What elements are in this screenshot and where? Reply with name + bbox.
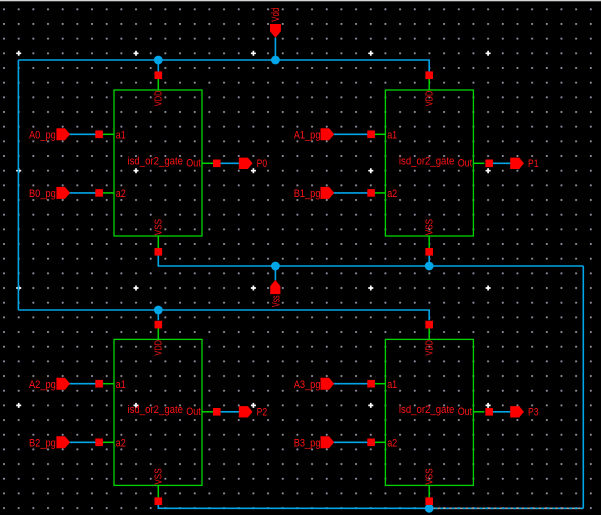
wire: Vdd top bus from left rail to gate2 VDD drop (18, 60, 429, 72)
wire: lower Vdd bus to gate4 VDD drop (18, 310, 429, 320)
or2 gate instance isd_or2_gate (bottom-right) (385, 339, 473, 485)
or2 gate instance isd_or2_gate (bottom-left) (114, 339, 202, 485)
wire: Vss symbol stem (274, 266, 276, 280)
pin a1 of bottom-right (374, 379, 397, 391)
junction square: net P0 at Out pin (213, 160, 221, 168)
input port A1_pg wire to pin a1 (332, 133, 371, 135)
wire: Vdd symbol stem (274, 38, 276, 61)
junction square: net A3_pg at gate pin (367, 380, 375, 388)
input port B0_pg wire to pin a2 (68, 192, 99, 194)
junction: Vdd bus / gate1 drop (154, 56, 163, 65)
pin Out of top-left (186, 158, 213, 170)
svg-text:P1: P1 (528, 158, 539, 170)
junction: Vdd bus / Vdd symbol (271, 56, 280, 65)
output wire from Out square to port P3 (489, 411, 512, 413)
svg-text:a1: a1 (116, 130, 126, 142)
wire: gate1 VSS to Vss mid bus, across to right rail (158, 255, 583, 266)
svg-text:B3_pg: B3_pg (294, 438, 321, 450)
svg-text:B2_pg: B2_pg (29, 438, 56, 450)
pin a1 of top-left (103, 130, 126, 142)
input port B1_pg wire to pin a2 (332, 192, 371, 194)
output wire from Out square to port P1 (489, 162, 512, 164)
svg-text:VSS: VSS (423, 468, 435, 484)
svg-text:B1_pg: B1_pg (294, 188, 321, 200)
pin a2 of bottom-left (103, 438, 126, 450)
svg-text:a1: a1 (116, 379, 126, 391)
pin VSS of top-right (423, 219, 435, 256)
input port B3_pg wire to pin a2 (332, 441, 371, 443)
pin VDD of bottom-right (423, 321, 435, 356)
input port terminal A0_pg (29, 128, 70, 141)
svg-text:A2_pg: A2_pg (29, 379, 56, 391)
wire: gate2 VSS stub to mid bus (428, 255, 430, 266)
pin a1 of bottom-left (103, 379, 126, 391)
input port terminal B3_pg (294, 436, 334, 449)
svg-text:A0_pg: A0_pg (29, 130, 56, 142)
output port terminal P3 (510, 406, 538, 418)
pin a2 of top-right (374, 188, 397, 200)
junction square: net B3_pg at gate pin (367, 439, 375, 447)
svg-text:P2: P2 (257, 406, 268, 418)
input port terminal B2_pg (29, 436, 70, 449)
svg-text:isd_or2_gate: isd_or2_gate (128, 404, 184, 416)
svg-text:Out: Out (186, 158, 201, 170)
junction square: net P3 at Out pin (485, 408, 493, 416)
input port terminal A2_pg (29, 378, 70, 391)
input port terminal A1_pg (294, 128, 334, 141)
junction: mid bus / gate2 VSS (425, 262, 434, 271)
wire: Vdd drop to gate3 VDD pin (157, 310, 159, 320)
wire: gate3 VSS down to bottom bus, right to junction (158, 505, 429, 509)
wire: right Vss rail down to bottom bus corner (582, 266, 584, 508)
junction square: net P2 at Out pin (213, 408, 221, 416)
wire: gate4 VSS stub to bottom bus (428, 505, 430, 509)
svg-text:Vss: Vss (271, 295, 283, 307)
svg-text:a2: a2 (387, 188, 397, 200)
pin VDD of top-right (423, 71, 435, 106)
ground symbol Vss (points up) (270, 280, 282, 307)
svg-text:P0: P0 (257, 158, 268, 170)
pin a2 of top-left (103, 188, 126, 200)
svg-text:VSS: VSS (153, 468, 165, 484)
input port terminal A3_pg (294, 378, 334, 391)
output port terminal P1 (510, 158, 538, 170)
output port terminal P0 (239, 158, 267, 170)
input port B2_pg wire to pin a2 (68, 441, 99, 443)
svg-text:a1: a1 (387, 379, 397, 391)
pin VDD of top-left (153, 71, 165, 106)
svg-text:a2: a2 (116, 188, 126, 200)
or2 gate instance isd_or2_gate (top-left) (114, 90, 202, 236)
svg-text:VSS: VSS (423, 219, 435, 235)
pin VSS of bottom-right (423, 468, 435, 505)
svg-text:B0_pg: B0_pg (29, 188, 56, 200)
svg-text:A1_pg: A1_pg (294, 130, 321, 142)
wire: bottom bus highlighted segment (dashed) to right rail (429, 507, 583, 509)
svg-text:a1: a1 (387, 130, 397, 142)
wire: left Vdd rail (17, 60, 19, 310)
input port A0_pg wire to pin a1 (68, 133, 99, 135)
svg-text:isd_or2_gate: isd_or2_gate (399, 155, 455, 167)
pin Out of top-right (458, 158, 485, 170)
input port A3_pg wire to pin a1 (332, 383, 371, 385)
pin VSS of bottom-left (153, 468, 165, 505)
svg-text:VSS: VSS (153, 219, 165, 235)
pin a2 of bottom-right (374, 438, 397, 450)
svg-text:P3: P3 (528, 406, 539, 418)
svg-text:Vdd: Vdd (270, 8, 282, 22)
svg-text:VDD: VDD (153, 340, 165, 356)
svg-text:A3_pg: A3_pg (294, 379, 321, 391)
svg-text:Out: Out (186, 406, 201, 418)
junction square: net B2_pg at gate pin (95, 439, 103, 447)
junction: mid bus / Vss symbol (271, 262, 280, 271)
input port terminal B1_pg (294, 187, 334, 200)
junction: lower Vdd bus / gate3 drop (154, 306, 163, 315)
wire: Vdd drop to gate1 VDD pin (157, 60, 159, 72)
input port A2_pg wire to pin a1 (68, 383, 99, 385)
pin VDD of bottom-left (153, 321, 165, 356)
pin VSS of top-left (153, 219, 165, 256)
junction square: net A2_pg at gate pin (95, 380, 103, 388)
output wire from Out square to port P2 (217, 411, 241, 413)
power symbol Vdd (supply pin, points down) (270, 8, 282, 38)
svg-text:Out: Out (458, 406, 473, 418)
or2 gate instance isd_or2_gate (top-right) (385, 90, 473, 236)
junction square: net B0_pg at gate pin (95, 189, 103, 197)
input port terminal B0_pg (29, 187, 70, 200)
pin Out of bottom-right (458, 406, 485, 418)
junction square: net A0_pg at gate pin (95, 131, 103, 139)
output wire from Out square to port P0 (217, 162, 241, 164)
junction square: net B1_pg at gate pin (367, 189, 375, 197)
svg-text:a2: a2 (387, 438, 397, 450)
pin Out of bottom-left (186, 406, 213, 418)
svg-text:isd_or2_gate: isd_or2_gate (128, 155, 184, 167)
junction square: net P1 at Out pin (485, 160, 493, 168)
output port terminal P2 (239, 406, 267, 418)
junction: bottom bus / gate4 VSS (425, 504, 434, 513)
svg-text:isd_or2_gate: isd_or2_gate (399, 404, 455, 416)
svg-text:VDD: VDD (153, 90, 165, 106)
svg-text:a2: a2 (116, 438, 126, 450)
svg-text:VDD: VDD (423, 90, 435, 106)
junction square: net A1_pg at gate pin (367, 131, 375, 139)
svg-text:VDD: VDD (423, 340, 435, 356)
svg-text:Out: Out (458, 158, 473, 170)
pin a1 of top-right (374, 130, 397, 142)
